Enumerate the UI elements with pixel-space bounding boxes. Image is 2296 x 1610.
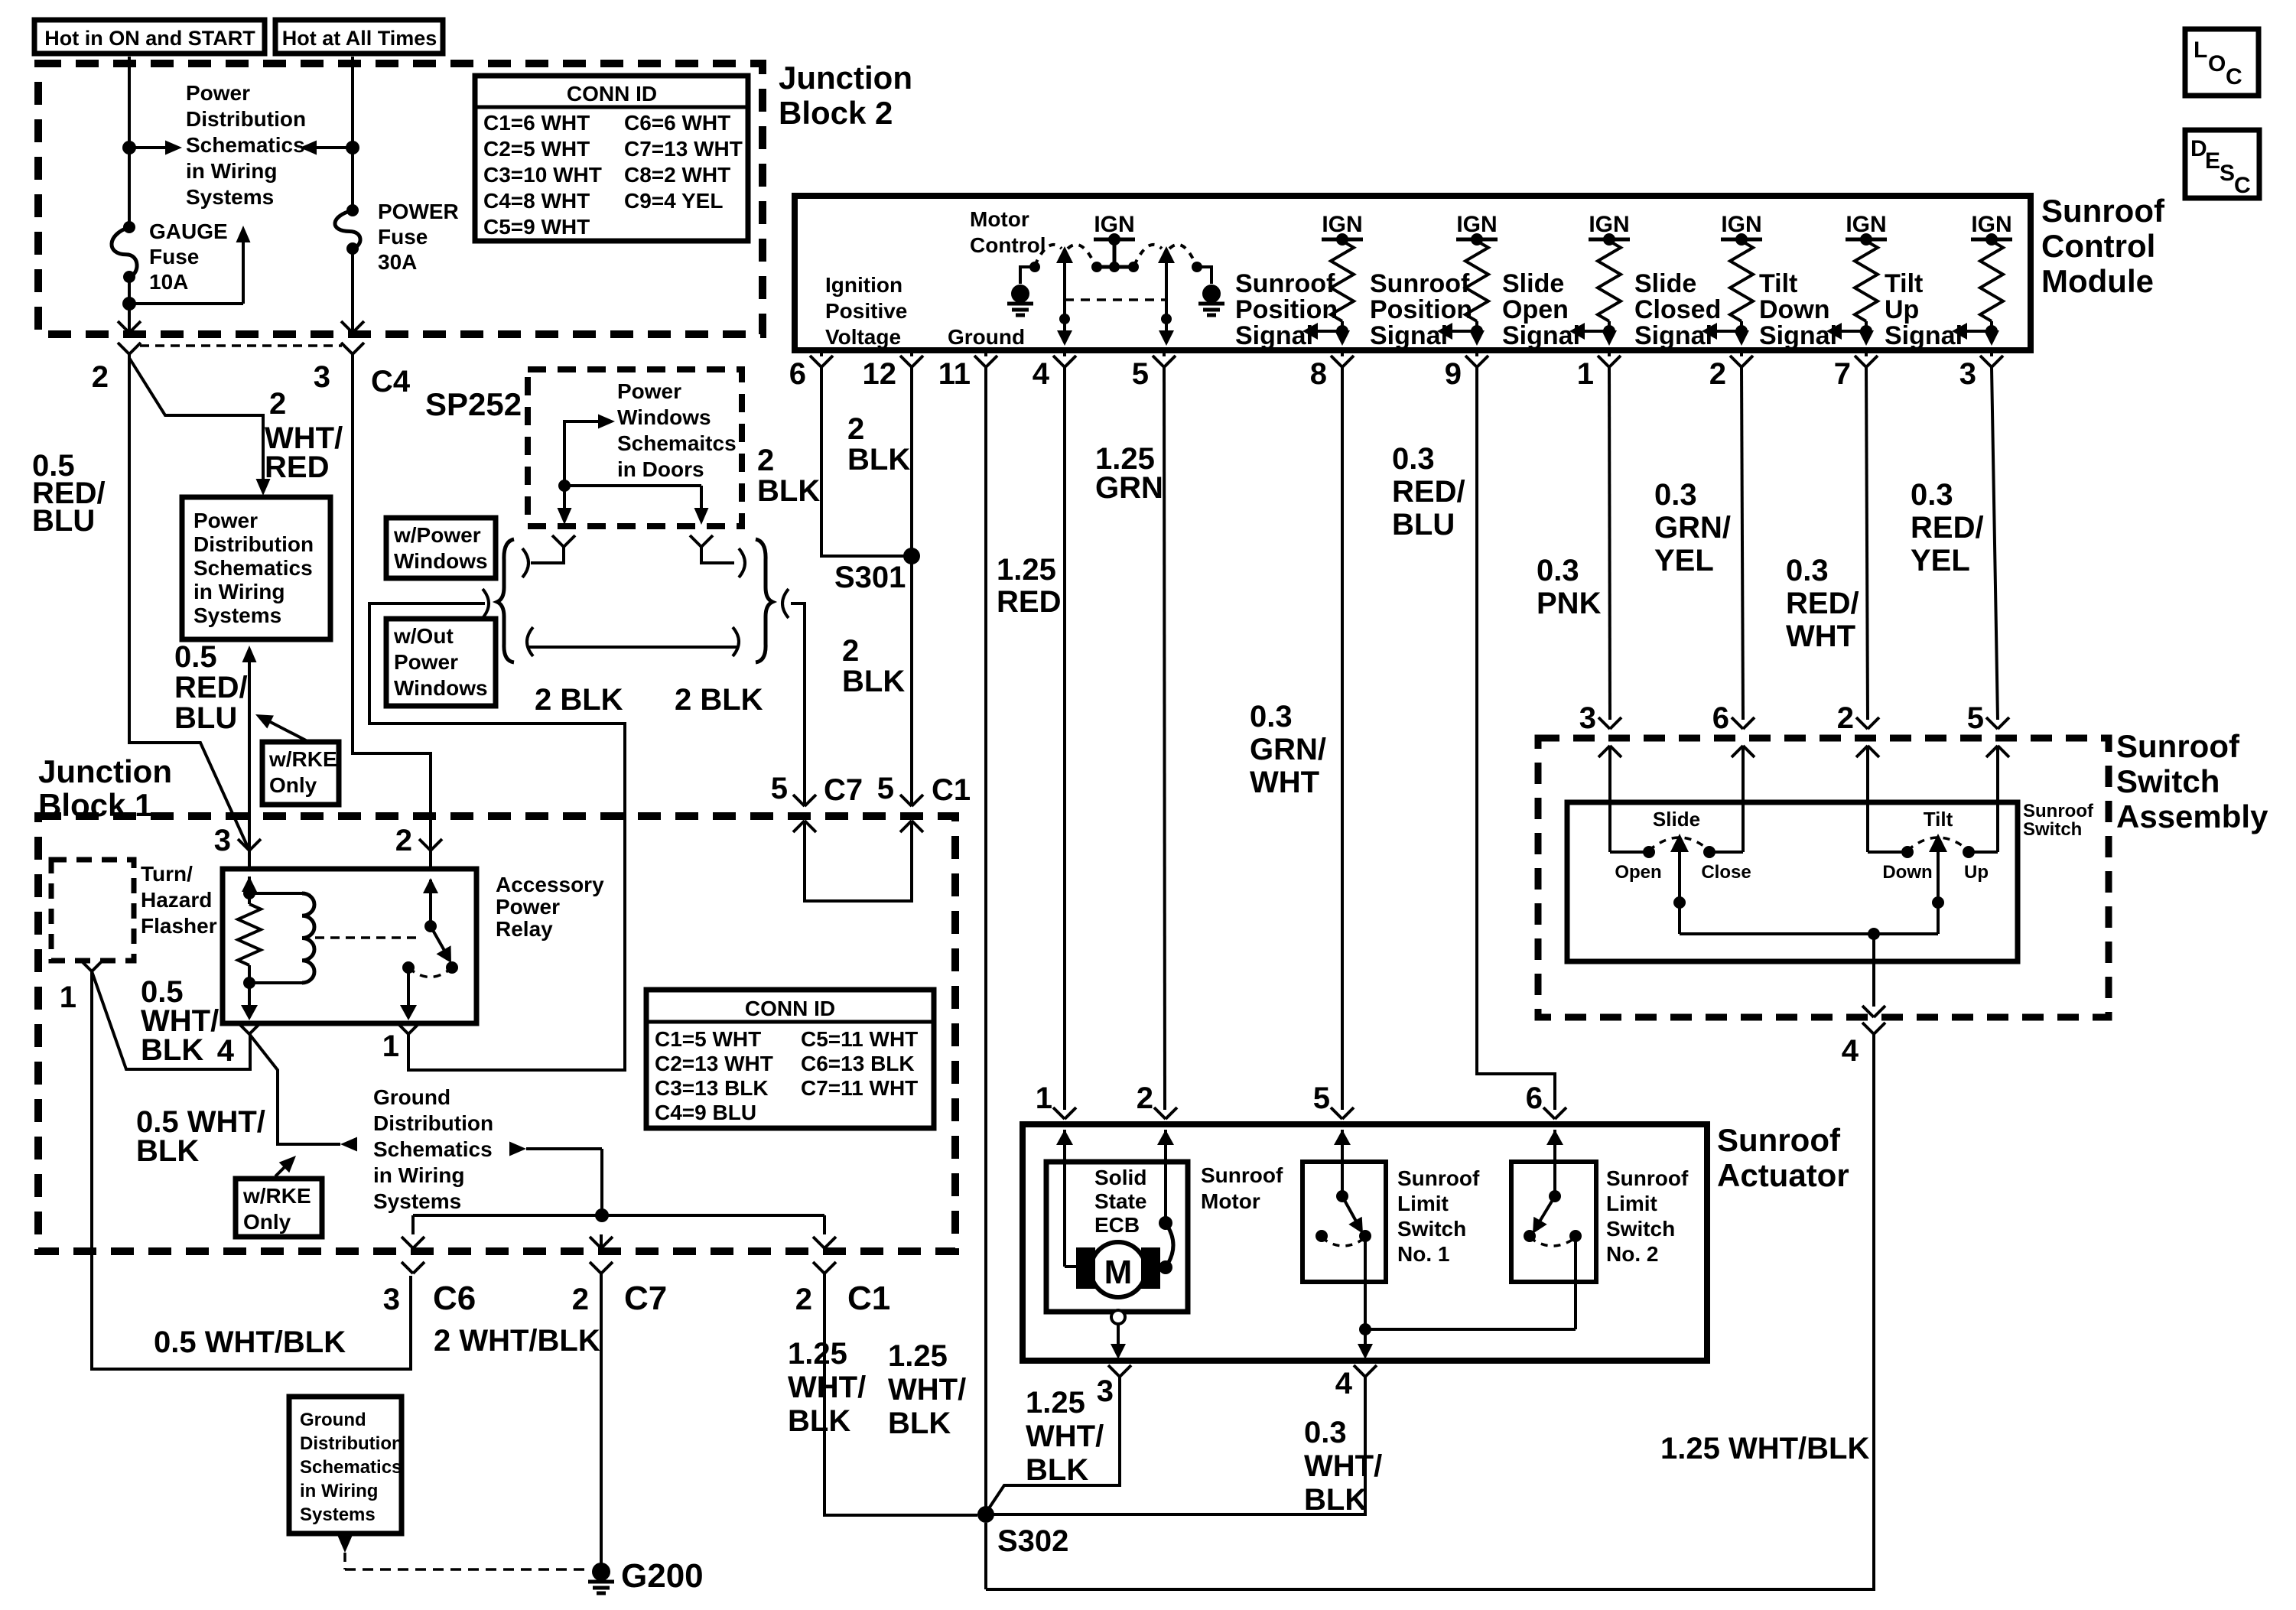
- svg-text:Power: Power: [394, 650, 458, 674]
- label C7 (top): [824, 773, 863, 807]
- label 0.3 GRN/ YEL: [1654, 478, 1731, 577]
- svg-text:w/Power: w/Power: [393, 523, 481, 547]
- svg-text:E: E: [2205, 148, 2220, 174]
- switch common bus: [1680, 928, 1938, 940]
- svg-text:4: 4: [1033, 357, 1050, 391]
- sunroof switch box: [1567, 802, 2018, 961]
- svg-text:Systems: Systems: [373, 1189, 461, 1213]
- svg-text:RED/: RED/: [174, 671, 248, 704]
- svg-text:C: C: [2234, 173, 2251, 198]
- svg-text:2 BLK: 2 BLK: [535, 683, 623, 717]
- svg-text:30A: 30A: [378, 250, 417, 274]
- svg-text:Systems: Systems: [186, 185, 274, 209]
- svg-text:2: 2: [847, 412, 864, 446]
- svg-text:Sunroof: Sunroof: [1370, 269, 1470, 298]
- svg-text:Schematics: Schematics: [194, 556, 313, 580]
- tilt dashed arc: [1907, 838, 1969, 851]
- label 2 (C4 pin): [92, 360, 109, 394]
- svg-text:WHT: WHT: [1250, 766, 1319, 799]
- ground bus horizontal: [413, 1214, 824, 1217]
- svg-text:Slide: Slide: [1502, 269, 1564, 298]
- svg-text:Up: Up: [1964, 862, 1989, 883]
- switch assembly pin4 connector: [1842, 1023, 1885, 1068]
- svg-text:3: 3: [214, 824, 231, 857]
- limit switch1 contacts: [1315, 1230, 1371, 1242]
- svg-text:C1=6 WHT: C1=6 WHT: [483, 111, 590, 135]
- wire pin2 to switch pin6 0.3 GRN/YEL: [1742, 367, 1743, 720]
- wires down to in-door connectors: [558, 486, 709, 525]
- label Junction Block 1: [38, 753, 172, 823]
- ground distribution schematics box (bottom): [289, 1397, 402, 1534]
- motor control dashed arc 3: [1134, 245, 1162, 265]
- svg-text:S: S: [2220, 161, 2235, 186]
- label 1.25 WHT/BLK (bottom right): [1660, 1432, 1869, 1465]
- wire 0.5 RED/BLU from C4 pin2 to relay pin 3: [129, 354, 249, 851]
- svg-text:Sunroof: Sunroof: [1201, 1163, 1283, 1187]
- arrow w/RKE (lower): [275, 1156, 296, 1176]
- dashed wire from bottom box to G200: [338, 1536, 587, 1569]
- wire to C1(2): [813, 1215, 836, 1251]
- svg-text:in Wiring: in Wiring: [194, 580, 285, 603]
- limit switch2 contact: [1549, 1145, 1561, 1202]
- svg-text:1.25: 1.25: [1026, 1386, 1085, 1420]
- IGN symbol (motor control): [1091, 212, 1139, 272]
- svg-text:CONN ID: CONN ID: [567, 82, 657, 106]
- ECB output circle: [1111, 1310, 1125, 1324]
- svg-text:2: 2: [1837, 701, 1854, 735]
- in-door connector V right: [690, 535, 713, 547]
- svg-text:1.25: 1.25: [997, 553, 1056, 587]
- svg-text:BLK: BLK: [1026, 1453, 1088, 1487]
- svg-text:2: 2: [572, 1283, 589, 1316]
- ground bus junction dot: [595, 1208, 609, 1222]
- svg-text:WHT: WHT: [1786, 620, 1855, 653]
- svg-text:Windows: Windows: [394, 676, 488, 700]
- svg-text:Tilt: Tilt: [1924, 808, 1953, 831]
- wire below power fuse: [351, 249, 354, 334]
- label C4: [371, 365, 411, 398]
- wire 0.5 WHT/BLK pin1 to C6: [92, 971, 411, 1369]
- switch assembly pin connectors 3/6/2/5: [1579, 701, 2009, 852]
- text Ground (module): [948, 325, 1025, 349]
- wire brace to connector C7: [791, 603, 805, 806]
- connector 5 C7 (JB1 top): [793, 795, 816, 903]
- svg-text:5: 5: [877, 772, 894, 805]
- label 2 BLK (pin 12): [847, 412, 910, 476]
- svg-text:2: 2: [842, 634, 859, 668]
- wire to C7: [590, 1234, 613, 1251]
- svg-text:Down: Down: [1759, 295, 1830, 324]
- w/Power Windows box: [386, 518, 496, 578]
- svg-text:10A: 10A: [149, 270, 188, 294]
- label 2 BLK (S301 to C1): [842, 634, 905, 698]
- svg-text:Sunroof: Sunroof: [2116, 728, 2240, 764]
- splice S302: [977, 1506, 1068, 1558]
- svg-text:1: 1: [1577, 357, 1594, 391]
- svg-text:Limit: Limit: [1397, 1192, 1449, 1215]
- motor control dashed link: [1065, 298, 1166, 301]
- label C1 (top): [932, 773, 971, 807]
- CONN ID table (junction block 1): [646, 990, 934, 1128]
- junction block 1 dashed outline: [38, 816, 955, 1251]
- label 0.3 RED/ YEL: [1911, 478, 1984, 577]
- label Tilt: [1924, 808, 1953, 831]
- svg-text:C9=4 YEL: C9=4 YEL: [624, 189, 723, 213]
- limit switch1 dashed arc: [1322, 1238, 1365, 1246]
- w/RKE Only box (lower): [236, 1179, 322, 1237]
- wire switch pin4 to S302 1.25 WHT/BLK: [986, 1034, 1874, 1589]
- svg-text:in Wiring: in Wiring: [300, 1481, 378, 1501]
- svg-text:Ignition: Ignition: [825, 273, 902, 297]
- curl bypass right: [733, 627, 739, 656]
- svg-text:G200: G200: [621, 1557, 704, 1595]
- limit switch2 dashed arc: [1530, 1238, 1576, 1246]
- svg-text:Fuse: Fuse: [378, 225, 428, 249]
- label 1.25 GRN: [1095, 442, 1163, 505]
- svg-text:Hot at All Times: Hot at All Times: [282, 27, 437, 50]
- wire C7 to G200: [600, 1273, 603, 1565]
- svg-text:3: 3: [1097, 1374, 1114, 1408]
- svg-text:Accessory: Accessory: [496, 873, 604, 896]
- svg-text:7: 7: [1834, 357, 1851, 391]
- relay coil link: [249, 893, 302, 983]
- label Sunroof Switch Assembly: [2116, 728, 2268, 834]
- svg-text:5: 5: [771, 772, 788, 805]
- label 0.3 PNK: [1537, 554, 1602, 620]
- limit switch2 blade: [1533, 1196, 1555, 1234]
- IGN pullup resistor at x=2604: [1971, 212, 2012, 332]
- DESC reference box: [2185, 130, 2259, 198]
- svg-text:0.3: 0.3: [1392, 442, 1435, 476]
- LOC reference box: [2185, 29, 2259, 96]
- svg-text:2: 2: [757, 444, 774, 477]
- svg-text:Actuator: Actuator: [1717, 1157, 1849, 1193]
- svg-text:5: 5: [1132, 357, 1149, 391]
- motor control arrow right (pin5): [1158, 246, 1175, 346]
- svg-text:WHT/: WHT/: [888, 1373, 966, 1407]
- arrow to power windows text: [564, 415, 615, 486]
- relay switch contacts: [402, 961, 458, 974]
- text Ignition Positive Voltage: [825, 273, 907, 349]
- svg-text:Sunroof: Sunroof: [1606, 1166, 1689, 1190]
- relay dashed actuation link: [315, 936, 419, 939]
- svg-text:5: 5: [1313, 1081, 1330, 1115]
- wire: Hot in ON and START feed down (GAUGE fuse branch): [128, 57, 131, 226]
- label Accessory Power Relay: [496, 873, 604, 941]
- splice S301: [834, 548, 920, 594]
- svg-text:Position: Position: [1370, 295, 1472, 324]
- wire pin8 to actuator pin5 0.3 GRN/WHT: [1341, 367, 1344, 1110]
- svg-text:C8=2 WHT: C8=2 WHT: [624, 163, 730, 187]
- actuator top pin connectors 1/2/5/6: [1036, 1081, 1566, 1145]
- motor control dashed arc 1: [1035, 245, 1062, 265]
- svg-text:0.3: 0.3: [1786, 554, 1829, 587]
- svg-text:Distribution: Distribution: [194, 532, 314, 556]
- svg-text:2: 2: [1137, 1081, 1153, 1115]
- svg-text:0.3: 0.3: [1654, 478, 1697, 512]
- CONN ID table (junction block 2): [475, 76, 748, 241]
- svg-text:4: 4: [1335, 1367, 1353, 1400]
- svg-text:Motor: Motor: [970, 207, 1029, 231]
- svg-text:1: 1: [382, 1029, 399, 1063]
- svg-text:6: 6: [1712, 701, 1729, 735]
- text ground distribution (bottom box): [300, 1410, 403, 1525]
- label Sunroof Control Module: [2041, 193, 2165, 299]
- label 5 (C1): [877, 772, 894, 805]
- svg-text:GRN/: GRN/: [1250, 733, 1326, 766]
- label Down: [1882, 862, 1932, 883]
- svg-text:Distribution: Distribution: [300, 1433, 403, 1454]
- svg-text:11: 11: [938, 357, 971, 391]
- svg-text:2: 2: [92, 360, 109, 394]
- wire pin7 to switch pin2 0.3 RED/WHT: [1866, 367, 1868, 720]
- text Power Distribution Schematics in Wiring Systems (JB2): [186, 81, 306, 209]
- turn/hazard flasher dashed box: [51, 860, 134, 961]
- svg-text:Open: Open: [1615, 862, 1661, 883]
- wire pin1 to switch pin3 0.3 PNK: [1609, 367, 1610, 720]
- IGN pullup resistor at x=1931: [1456, 212, 1498, 332]
- relay coil: [302, 893, 314, 983]
- svg-text:Signal: Signal: [1885, 321, 1963, 350]
- arrow up from gauge tap: [236, 226, 251, 304]
- svg-text:Switch: Switch: [2116, 763, 2220, 799]
- signal node/arrow at x=1931: [1437, 323, 1485, 346]
- wire to C6: [402, 1215, 424, 1251]
- svg-text:BLU: BLU: [32, 504, 95, 538]
- brace } grouping options (right): [756, 539, 772, 662]
- svg-text:Module: Module: [2041, 263, 2154, 299]
- wire actuator pin2 into ECB: [1159, 1145, 1172, 1230]
- slide common arrow: [1670, 834, 1689, 934]
- svg-text:C3=13 BLK: C3=13 BLK: [655, 1076, 769, 1100]
- svg-text:Slide: Slide: [1653, 808, 1700, 831]
- svg-text:9: 9: [1445, 357, 1462, 391]
- svg-text:Turn/: Turn/: [141, 862, 193, 886]
- signal node/arrow at x=1755: [1302, 323, 1350, 346]
- svg-text:Sunroof: Sunroof: [2041, 193, 2165, 229]
- svg-text:3: 3: [383, 1283, 400, 1316]
- wire U-link C7-C1 inside JB1: [805, 899, 912, 903]
- svg-text:Closed: Closed: [1634, 295, 1721, 324]
- motor control ground left: [1007, 262, 1040, 315]
- wire C4 pin3 to relay pin2: [353, 354, 431, 851]
- svg-text:BLK: BLK: [136, 1134, 199, 1168]
- label Turn/ Hazard Flasher: [141, 862, 217, 938]
- sunroof motor: [1076, 1242, 1160, 1297]
- arrow to Power Distribution Schematics (right): [129, 141, 182, 155]
- label 5 (C7): [771, 772, 788, 805]
- curl bypass left: [527, 627, 533, 656]
- svg-text:C7=11 WHT: C7=11 WHT: [801, 1076, 918, 1100]
- svg-text:Signal: Signal: [1502, 321, 1580, 350]
- wire pin11 ground 1.25 BLK to S302: [984, 367, 987, 1510]
- solid state ECB box: [1046, 1162, 1188, 1312]
- signal text at x=2604: [1885, 269, 1963, 350]
- svg-text:POWER: POWER: [378, 200, 459, 223]
- svg-text:C1: C1: [847, 1280, 890, 1317]
- label 0.3 RED/ WHT: [1786, 554, 1859, 653]
- label Slide: [1653, 808, 1700, 831]
- svg-text:Windows: Windows: [394, 549, 488, 573]
- svg-text:Sunroof: Sunroof: [1235, 269, 1335, 298]
- svg-text:0.5: 0.5: [174, 640, 217, 674]
- wire right option branch: [701, 547, 734, 563]
- sunroof actuator box: [1023, 1124, 1707, 1361]
- wire C1(2) to S302: [824, 1273, 977, 1515]
- svg-text:SP252: SP252: [425, 386, 522, 422]
- svg-text:2 BLK: 2 BLK: [675, 683, 763, 717]
- motor control dashed arc 2: [1068, 245, 1095, 265]
- wire pin3 to switch pin5 0.3 RED/YEL: [1992, 367, 1998, 720]
- svg-text:Power: Power: [186, 81, 250, 105]
- connector 3 C6: [383, 1262, 476, 1317]
- label Close: [1701, 862, 1751, 883]
- limit switch1 blade: [1342, 1196, 1363, 1234]
- relay pin4 connector: [217, 1023, 261, 1068]
- svg-text:1.25: 1.25: [788, 1337, 847, 1371]
- svg-text:Only: Only: [269, 773, 317, 797]
- wire S302 down to bottom bus: [984, 1523, 987, 1589]
- svg-text:Slide: Slide: [1634, 269, 1696, 298]
- svg-text:No. 2: No. 2: [1606, 1242, 1658, 1266]
- label 1.25 WHT/ BLK (C1): [788, 1337, 866, 1438]
- wire below gauge fuse with tap: [122, 277, 243, 334]
- limit switch link wire: [1365, 1236, 1576, 1329]
- relay pin1 wire out: [400, 968, 417, 1020]
- label 1 (JB1 pin1): [60, 981, 76, 1014]
- fuse: GAUGE Fuse 10A: [112, 221, 137, 283]
- svg-text:Signal: Signal: [1634, 321, 1712, 350]
- label GAUGE Fuse 10A: [149, 220, 228, 294]
- wire 2 BLK ground path to relay pin1: [369, 603, 625, 1070]
- power feed label box: Hot in ON and START: [34, 20, 265, 54]
- relay switch common: [423, 851, 438, 932]
- label 0.5 RED/BLU (left): [32, 449, 106, 538]
- svg-text:S301: S301: [834, 561, 906, 594]
- svg-text:Windows: Windows: [617, 405, 711, 429]
- svg-text:C5=11 WHT: C5=11 WHT: [801, 1027, 918, 1051]
- svg-text:0.3: 0.3: [1537, 554, 1579, 587]
- IGN pullup resistor at x=2440: [1846, 212, 1887, 332]
- svg-text:BLU: BLU: [174, 701, 237, 735]
- svg-text:Systems: Systems: [300, 1504, 376, 1525]
- svg-text:C4=9 BLU: C4=9 BLU: [655, 1101, 756, 1124]
- w/RKE Only box (upper): [262, 742, 339, 805]
- svg-text:CONN ID: CONN ID: [745, 997, 835, 1020]
- svg-text:PNK: PNK: [1537, 587, 1602, 620]
- svg-text:BLK: BLK: [1304, 1483, 1367, 1517]
- svg-text:0.3: 0.3: [1304, 1416, 1347, 1449]
- svg-text:No. 1: No. 1: [1397, 1242, 1449, 1266]
- label 2 BLK (to C7): [675, 683, 763, 717]
- connector 5 C1 (JB1 top): [900, 795, 923, 903]
- svg-text:M: M: [1104, 1254, 1133, 1291]
- svg-text:Hazard: Hazard: [141, 888, 212, 912]
- text Solid State ECB: [1094, 1166, 1146, 1237]
- svg-text:Schemaitcs: Schemaitcs: [617, 431, 737, 455]
- svg-text:C2=5 WHT: C2=5 WHT: [483, 137, 590, 161]
- svg-text:O: O: [2208, 51, 2226, 76]
- relay coil bottom node: [243, 977, 255, 989]
- node dot in power windows box: [558, 480, 571, 492]
- svg-text:Flasher: Flasher: [141, 914, 217, 938]
- label 0.5 WHT/ BLK (2 line): [136, 1105, 265, 1168]
- svg-text:Tilt: Tilt: [1759, 269, 1797, 298]
- svg-text:Ground: Ground: [300, 1410, 366, 1430]
- label 0.5 RED/BLU (second): [174, 640, 248, 735]
- sunroof limit switch no1 box: [1302, 1162, 1386, 1282]
- svg-text:C7: C7: [624, 1280, 667, 1317]
- svg-text:RED/: RED/: [1911, 511, 1984, 545]
- svg-text:Schematics: Schematics: [373, 1137, 493, 1161]
- svg-text:Position: Position: [1235, 295, 1338, 324]
- svg-text:GRN: GRN: [1095, 471, 1163, 505]
- svg-text:6: 6: [1526, 1081, 1543, 1115]
- tilt common arrow: [1929, 834, 1947, 934]
- svg-text:in Wiring: in Wiring: [186, 159, 278, 183]
- svg-text:C5=9 WHT: C5=9 WHT: [483, 215, 590, 239]
- svg-text:C1: C1: [932, 773, 971, 807]
- actuator pin3 connector: [1097, 1365, 1131, 1408]
- svg-text:Relay: Relay: [496, 917, 553, 941]
- svg-text:Signal: Signal: [1759, 321, 1837, 350]
- svg-text:2: 2: [1709, 357, 1726, 391]
- svg-text:Distribution: Distribution: [186, 107, 306, 131]
- label Sunroof Limit Switch No. 2: [1606, 1166, 1689, 1266]
- svg-text:BLK: BLK: [788, 1404, 850, 1438]
- svg-text:12: 12: [863, 357, 897, 391]
- sunroof switch assembly dashed outline: [1538, 738, 2109, 1017]
- IGN pullup resistor at x=2104: [1589, 212, 1630, 332]
- svg-text:C: C: [2226, 64, 2242, 89]
- svg-text:Control: Control: [970, 233, 1046, 257]
- svg-text:C7=13 WHT: C7=13 WHT: [624, 137, 743, 161]
- svg-text:Switch: Switch: [1397, 1217, 1466, 1241]
- signal text at x=2440: [1759, 269, 1837, 350]
- svg-text:Power: Power: [617, 379, 681, 403]
- svg-text:Solid: Solid: [1094, 1166, 1146, 1189]
- label 1.25 RED: [997, 553, 1061, 619]
- svg-text:in Doors: in Doors: [617, 457, 704, 481]
- svg-text:w/RKE: w/RKE: [242, 1184, 311, 1208]
- svg-text:Close: Close: [1701, 862, 1751, 883]
- wire actuator pin4 to S302 0.3 WHT/BLK: [986, 1377, 1365, 1514]
- limit switch2 contacts: [1524, 1230, 1582, 1242]
- label 0.3 RED/ BLU: [1392, 442, 1465, 542]
- svg-text:BLK: BLK: [847, 443, 910, 476]
- relay pin2 connector: [395, 824, 442, 857]
- wire relay pin4 to w/RKE arrow: [249, 1034, 357, 1152]
- wire pin5 to actuator pin2 1.25 GRN: [1164, 367, 1165, 1110]
- svg-text:S302: S302: [997, 1524, 1068, 1558]
- sunroof limit switch no2 box: [1511, 1162, 1596, 1282]
- svg-text:Open: Open: [1502, 295, 1569, 324]
- svg-text:2: 2: [395, 824, 412, 857]
- label Up: [1964, 862, 1989, 883]
- svg-text:Sunroof: Sunroof: [1397, 1166, 1480, 1190]
- svg-text:2: 2: [269, 387, 286, 421]
- IGN pullup resistor at x=1755: [1322, 212, 1363, 332]
- label 1.25 WHT/ BLK (pin3): [1026, 1386, 1104, 1487]
- svg-text:3: 3: [314, 360, 330, 394]
- signal text at x=2277: [1634, 269, 1721, 350]
- brace { grouping options (left): [497, 539, 514, 662]
- svg-text:RED/: RED/: [1786, 587, 1859, 620]
- label 0.5 WHT/ BLK (3 line): [141, 975, 219, 1067]
- connector 2 C7: [572, 1262, 668, 1317]
- relay pin4 wire out: [241, 983, 258, 1020]
- label 2 BLK (ground path): [535, 683, 623, 717]
